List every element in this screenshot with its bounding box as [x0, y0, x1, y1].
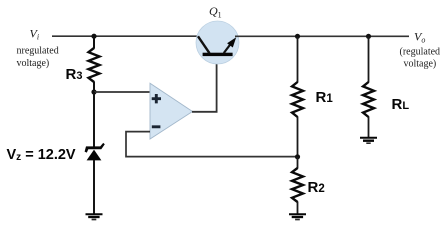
- node: R1 / R2 / feedback junction: [295, 154, 300, 159]
- resistor R3: [93, 36, 95, 48]
- node: R3 bottom / zener / op-amp + junction: [91, 89, 96, 94]
- svg-text:nregulated: nregulated: [17, 46, 59, 57]
- zener diode Vz: anode triangle (apex up): [87, 150, 102, 161]
- op-amp U1: + input mark: [152, 94, 161, 103]
- svg-text:voltage): voltage): [404, 59, 437, 70]
- transistor Q1 base bar: [203, 53, 233, 56]
- ground (zener): [86, 213, 103, 215]
- svg-text:RL: RL: [392, 96, 410, 113]
- resistor R2: [297, 157, 299, 169]
- zener diode Vz lead (bottom): [93, 160, 95, 214]
- svg-text:Q1: Q1: [209, 4, 222, 19]
- ground (R2): [289, 213, 306, 215]
- op-amp U1 body: [150, 83, 193, 139]
- wire: op-amp output to Q1 base: [192, 56, 217, 112]
- svg-text:Vo: Vo: [414, 30, 425, 45]
- node: output rail / R1 top: [295, 34, 300, 39]
- op-amp U1: - input mark: [152, 125, 161, 128]
- transistor Q1 collector lead: [198, 36, 210, 53]
- transistor Q1 body circle: [196, 21, 239, 64]
- svg-text:Vz = 12.2V: Vz = 12.2V: [7, 147, 76, 163]
- resistor R1: [297, 36, 299, 82]
- svg-text:(regulated: (regulated: [400, 47, 441, 58]
- svg-text:Vi: Vi: [30, 27, 40, 42]
- svg-text:R2: R2: [308, 179, 325, 196]
- node: junction input rail / R3 top: [91, 34, 96, 39]
- node: output rail / RL top: [366, 34, 371, 39]
- svg-text:R1: R1: [316, 89, 334, 106]
- zener diode Vz lead (top): [93, 92, 95, 147]
- wire: input rail Vi to Q1 collector: [52, 35, 203, 37]
- svg-text:voltage): voltage): [17, 58, 50, 69]
- ground (RL): [360, 137, 377, 139]
- transistor Q1 emitter lead with arrow: [224, 42, 233, 54]
- wire: junction to op-amp non-inverting input: [94, 91, 150, 93]
- wire: inverting input feedback (left, down, right to R1/R2 node): [126, 132, 298, 157]
- resistor RL: [368, 36, 370, 82]
- svg-text:R3: R3: [66, 66, 83, 83]
- zener diode Vz: cathode bar with bent ends: [85, 143, 105, 153]
- wire: output rail from Q1 emitter to Vo: [235, 35, 409, 37]
